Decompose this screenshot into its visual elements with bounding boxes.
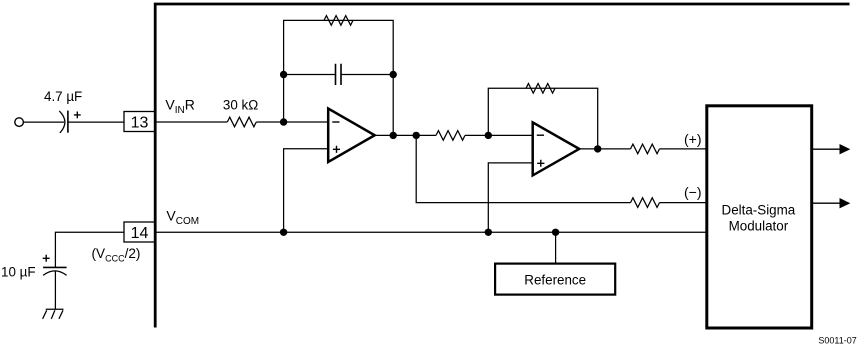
input terminal circle xyxy=(15,118,24,127)
node: VCOM / U2 plus branch xyxy=(485,229,492,236)
capacitor C2 10uF straight plate xyxy=(43,266,67,268)
wire: pin 13 to 30k resistor xyxy=(155,121,227,123)
svg-text:(−): (−) xyxy=(684,184,702,200)
arrowhead output 2 xyxy=(840,198,851,208)
pin box 13 xyxy=(124,112,155,132)
wire: feedback left vertical xyxy=(284,20,394,135)
U1 minus sign xyxy=(332,121,339,123)
svg-text:(+): (+) xyxy=(684,131,702,147)
wire: modulator output 1 xyxy=(813,148,840,150)
U1 plus sign xyxy=(333,146,340,153)
wire: feedback 2 loop xyxy=(488,88,597,149)
U2 minus sign xyxy=(537,134,544,136)
capacitor C2 curved plate xyxy=(43,271,67,276)
resistor Rf2 (feedback 2) xyxy=(526,84,555,94)
svg-text:4.7 µF: 4.7 µF xyxy=(44,89,82,104)
wire: (-) branch from node to modulator xyxy=(416,135,630,202)
wire: C2 to ground xyxy=(54,271,56,309)
wire: U2 output to (+) resistor xyxy=(579,148,630,150)
wire: feedback cap branch xyxy=(284,74,394,76)
resistor R(+) xyxy=(631,144,660,154)
U2 plus sign xyxy=(537,160,544,167)
op-amp U1 xyxy=(328,109,375,163)
node: VCOM / reference branch xyxy=(552,229,559,236)
wire: U2 non-inverting input branch xyxy=(488,163,532,232)
node: U1 output minus-branch junction xyxy=(413,132,420,139)
pin box 14 xyxy=(124,222,155,242)
C2 plus polarity mark xyxy=(43,255,50,262)
resistor R3 (stage 2 input) xyxy=(436,131,465,141)
svg-text:Reference: Reference xyxy=(524,272,586,287)
wire: R(-) to modulator xyxy=(660,202,707,204)
wire: U1 non-inverting input branch xyxy=(284,149,329,233)
Delta-Sigma Modulator box xyxy=(707,106,812,328)
op-amp U2 xyxy=(533,122,580,175)
capacitor C1 4.7uF (curved plate) xyxy=(59,111,65,133)
capacitor C1 straight plate xyxy=(67,111,69,133)
svg-text:Delta-Sigma: Delta-Sigma xyxy=(722,203,796,218)
arrowhead output 1 xyxy=(840,144,851,154)
wire: R(+) to modulator xyxy=(660,148,707,150)
svg-text:14: 14 xyxy=(131,225,149,242)
wire: pin 14 to C2 xyxy=(55,232,124,267)
svg-text:Modulator: Modulator xyxy=(729,218,789,233)
wire: 30k resistor to op-amp U1 inverting input xyxy=(256,121,328,123)
svg-text:13: 13 xyxy=(131,114,149,131)
node: feedback cap right xyxy=(390,71,397,78)
svg-text:30 kΩ: 30 kΩ xyxy=(223,98,258,113)
node: feedback cap left xyxy=(280,71,287,78)
node: U2 inverting input junction xyxy=(485,132,492,139)
resistor 30k xyxy=(227,117,256,127)
wire: modulator output 2 xyxy=(813,202,840,204)
node: U2 output feedback junction xyxy=(594,145,601,152)
ground xyxy=(43,309,64,319)
wire: VCOM to Reference box xyxy=(555,232,557,263)
svg-text:S0011-07: S0011-07 xyxy=(818,336,856,344)
wire: R3 to op-amp U2 inverting input xyxy=(465,134,533,136)
wire: U1 output xyxy=(375,134,436,136)
resistor Rf1 (feedback) xyxy=(324,16,353,26)
Reference box xyxy=(495,264,615,295)
wire: VCOM rail xyxy=(155,231,706,233)
chip border (thick top edge and left edge) xyxy=(155,4,849,328)
C1 plus polarity mark xyxy=(74,112,81,119)
wire: C1 to pin 13 xyxy=(68,121,124,123)
capacitor Cf1 plates xyxy=(336,64,342,85)
svg-text:10 µF: 10 µF xyxy=(1,265,36,280)
node: VCOM / U1 plus branch xyxy=(280,229,287,236)
resistor R(-) xyxy=(631,198,660,208)
node: U1 output feedback junction xyxy=(390,132,397,139)
node: inverting input junction U1 xyxy=(280,118,287,125)
wire: terminal to C1 xyxy=(23,121,64,123)
